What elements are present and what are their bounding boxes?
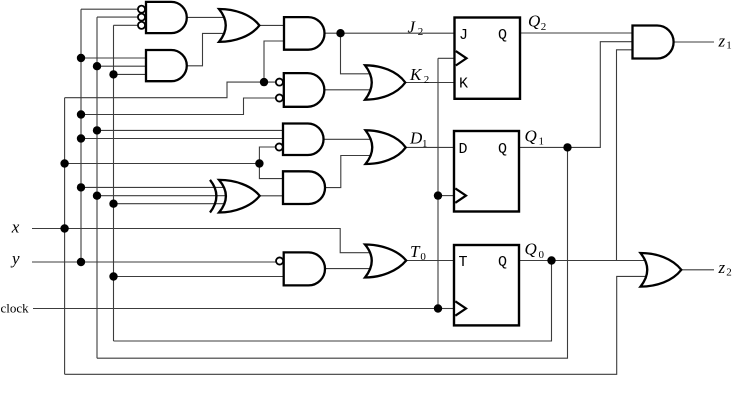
svg-text:x: x xyxy=(11,217,20,236)
wire Q0 output to z2 xyxy=(519,260,646,262)
wire XOR output to D-AND2 input 2 xyxy=(260,195,285,197)
node x input junction xyxy=(60,224,68,232)
wire Q1 to XOR input 2 xyxy=(97,195,228,197)
svg-text:2: 2 xyxy=(424,74,430,86)
bubble T-AND input 1 xyxy=(276,257,283,264)
svg-text:0: 0 xyxy=(539,249,545,261)
and-gate J-AND xyxy=(284,17,325,50)
wire y bus vertical xyxy=(80,9,82,262)
or-gate z2-OR xyxy=(641,253,682,287)
wire Q0 to XOR input 3 xyxy=(114,203,229,205)
node y AND2 junction xyxy=(77,54,85,62)
wire z1 output xyxy=(674,41,714,43)
clock triangle T xyxy=(455,301,466,315)
svg-text:Q: Q xyxy=(498,141,507,158)
wire OR1 output to J-AND input 1 xyxy=(259,24,285,26)
svg-text:Q: Q xyxy=(528,11,540,30)
svg-text:K: K xyxy=(409,65,423,84)
wire Q0 to T-AND input 2 xyxy=(114,276,286,278)
or-gate OR1 xyxy=(219,9,259,42)
wire y to XOR input 1 xyxy=(81,186,228,188)
and-gate D-AND2 xyxy=(283,171,325,204)
bubble K-NAND input 2 xyxy=(276,94,283,101)
svg-text:z: z xyxy=(718,31,726,50)
node Q0 AND2 junction xyxy=(109,70,117,78)
svg-text:J: J xyxy=(459,27,468,44)
node Q1 AND2 junction xyxy=(93,62,101,70)
or-gate T-OR xyxy=(365,245,406,278)
wire Q0 bus vertical xyxy=(113,25,115,341)
wire y to D-AND1 input 2 xyxy=(81,138,285,140)
wire Q1 output xyxy=(519,42,633,148)
svg-text:Q: Q xyxy=(525,240,537,259)
wire Q1 to AND1 bubble 2 xyxy=(97,16,141,18)
wire clock to T flip-flop xyxy=(438,308,454,310)
wire clock to D flip-flop xyxy=(438,195,454,197)
wire Q1 bottom feedback xyxy=(97,147,568,358)
wire Q1 to AND2 input 2 xyxy=(97,65,147,67)
wire x to D gates xyxy=(65,163,260,165)
node y K-gate junction xyxy=(77,110,85,118)
wire D-AND2 output to D-OR input 2 xyxy=(325,156,374,188)
bubble AND1 input 1 xyxy=(138,6,145,13)
svg-text:Q: Q xyxy=(498,27,507,44)
wire J2 branch to K2-OR input 1 xyxy=(341,33,375,74)
wire clock to JK flip-flop xyxy=(438,57,455,59)
svg-text:0: 0 xyxy=(420,251,426,263)
wire y to K-gate bottom bubble xyxy=(81,98,276,115)
bubble AND1 input 3 xyxy=(138,22,145,29)
bubble K-NAND input 1 xyxy=(276,79,283,86)
wire T-OR output to T input xyxy=(406,260,454,262)
node x K/J branch junction xyxy=(260,78,268,86)
wire AND1 output to OR1 xyxy=(187,16,231,18)
svg-text:y: y xyxy=(10,249,20,268)
svg-text:D: D xyxy=(409,129,423,148)
and-gate z1-AND xyxy=(633,26,674,59)
node Q0 XOR junction xyxy=(109,200,117,208)
wire x to K-gate top path xyxy=(65,82,276,98)
svg-text:2: 2 xyxy=(726,267,732,279)
wire clock input xyxy=(33,308,438,310)
or-gate K2-OR xyxy=(365,65,405,99)
flip-flop T box xyxy=(454,245,519,325)
node clock D junction xyxy=(434,191,442,199)
wire D-AND1 output to D-OR input 1 xyxy=(324,138,375,140)
wire Q1 bus vertical xyxy=(96,17,98,358)
svg-text:2: 2 xyxy=(541,21,547,33)
node x to D gates junction xyxy=(60,159,68,167)
svg-text:Q: Q xyxy=(498,254,507,271)
node Q0 T-AND junction xyxy=(109,272,117,280)
svg-text:T: T xyxy=(410,242,421,261)
wire Q0 to AND1 bubble 3 xyxy=(114,24,142,26)
wire AND2 output to OR1 input 2 xyxy=(187,33,231,65)
node Q1 D-AND1 junction xyxy=(93,126,101,134)
svg-text:z: z xyxy=(718,258,726,277)
wire y input horizontal xyxy=(32,261,276,263)
wire K-NAND output to K2-OR input 2 xyxy=(324,89,374,91)
svg-text:K: K xyxy=(459,76,468,93)
wire x to D-AND1 bubble xyxy=(259,147,276,164)
node J2 junction xyxy=(336,29,344,37)
node Q0 feedback junction xyxy=(547,256,555,264)
wire y to AND1 bubble 1 xyxy=(81,8,141,10)
wire x bottom feedback to z2 xyxy=(65,276,646,374)
wire K2-OR output to K input xyxy=(405,82,454,84)
clock triangle JK xyxy=(456,51,467,65)
svg-text:D: D xyxy=(459,141,468,158)
and-gate T-AND (1 inverted input) xyxy=(284,252,325,285)
svg-text:1: 1 xyxy=(422,138,428,150)
wire x bus vertical xyxy=(64,98,66,375)
and-gate K-NAND (2 inverted inputs) xyxy=(284,73,325,107)
wire clock vertical xyxy=(437,58,439,308)
wire J-AND output to J input xyxy=(325,32,455,34)
svg-text:clock: clock xyxy=(1,301,30,316)
bubble D-AND1 input 3 xyxy=(276,143,283,150)
svg-text:2: 2 xyxy=(418,26,424,38)
wire z2 output xyxy=(681,269,714,271)
node Q1 feedback junction xyxy=(563,143,571,151)
clock triangle D xyxy=(455,188,466,202)
wire Q2 output to z1 xyxy=(520,32,633,34)
flip-flop JK box xyxy=(455,18,521,99)
wire Q0 branch to z1 input 3 xyxy=(617,50,633,261)
wire Q0 bottom feedback xyxy=(114,261,552,342)
node clock T junction xyxy=(434,304,442,312)
node y input junction xyxy=(77,258,85,266)
wire D-OR output to D input xyxy=(406,146,455,148)
or-gate D-OR xyxy=(366,130,406,164)
and-gate AND1 (3 inverted inputs) xyxy=(146,2,187,33)
flip-flop D box xyxy=(454,131,519,212)
svg-text:1: 1 xyxy=(726,40,732,52)
node x D branch junction xyxy=(255,159,263,167)
xor-gate XOR (3-input) back arc xyxy=(210,180,216,213)
and-gate D-AND1 (1 inverted input) xyxy=(283,124,324,156)
wire y to AND2 input 1 xyxy=(81,57,147,59)
and-gate AND2 xyxy=(146,50,187,81)
wire x branch to J-AND input 2 xyxy=(264,41,285,82)
node y XOR junction xyxy=(77,183,85,191)
svg-text:1: 1 xyxy=(539,136,545,148)
node y D-AND1 junction xyxy=(77,134,85,142)
wire x input horizontal xyxy=(32,229,374,253)
svg-text:Q: Q xyxy=(525,126,537,145)
svg-text:T: T xyxy=(459,254,468,271)
xor-gate XOR body xyxy=(219,180,260,213)
wire x to D-AND2 input 1 xyxy=(259,164,285,179)
wire Q0 to AND2 input 3 xyxy=(114,73,148,75)
bubble AND1 input 2 xyxy=(138,14,145,21)
wire T-AND output to T-OR input 2 xyxy=(325,268,374,270)
node Q1 XOR junction xyxy=(93,192,101,200)
wire Q1 to D-AND1 input 1 xyxy=(97,129,285,131)
